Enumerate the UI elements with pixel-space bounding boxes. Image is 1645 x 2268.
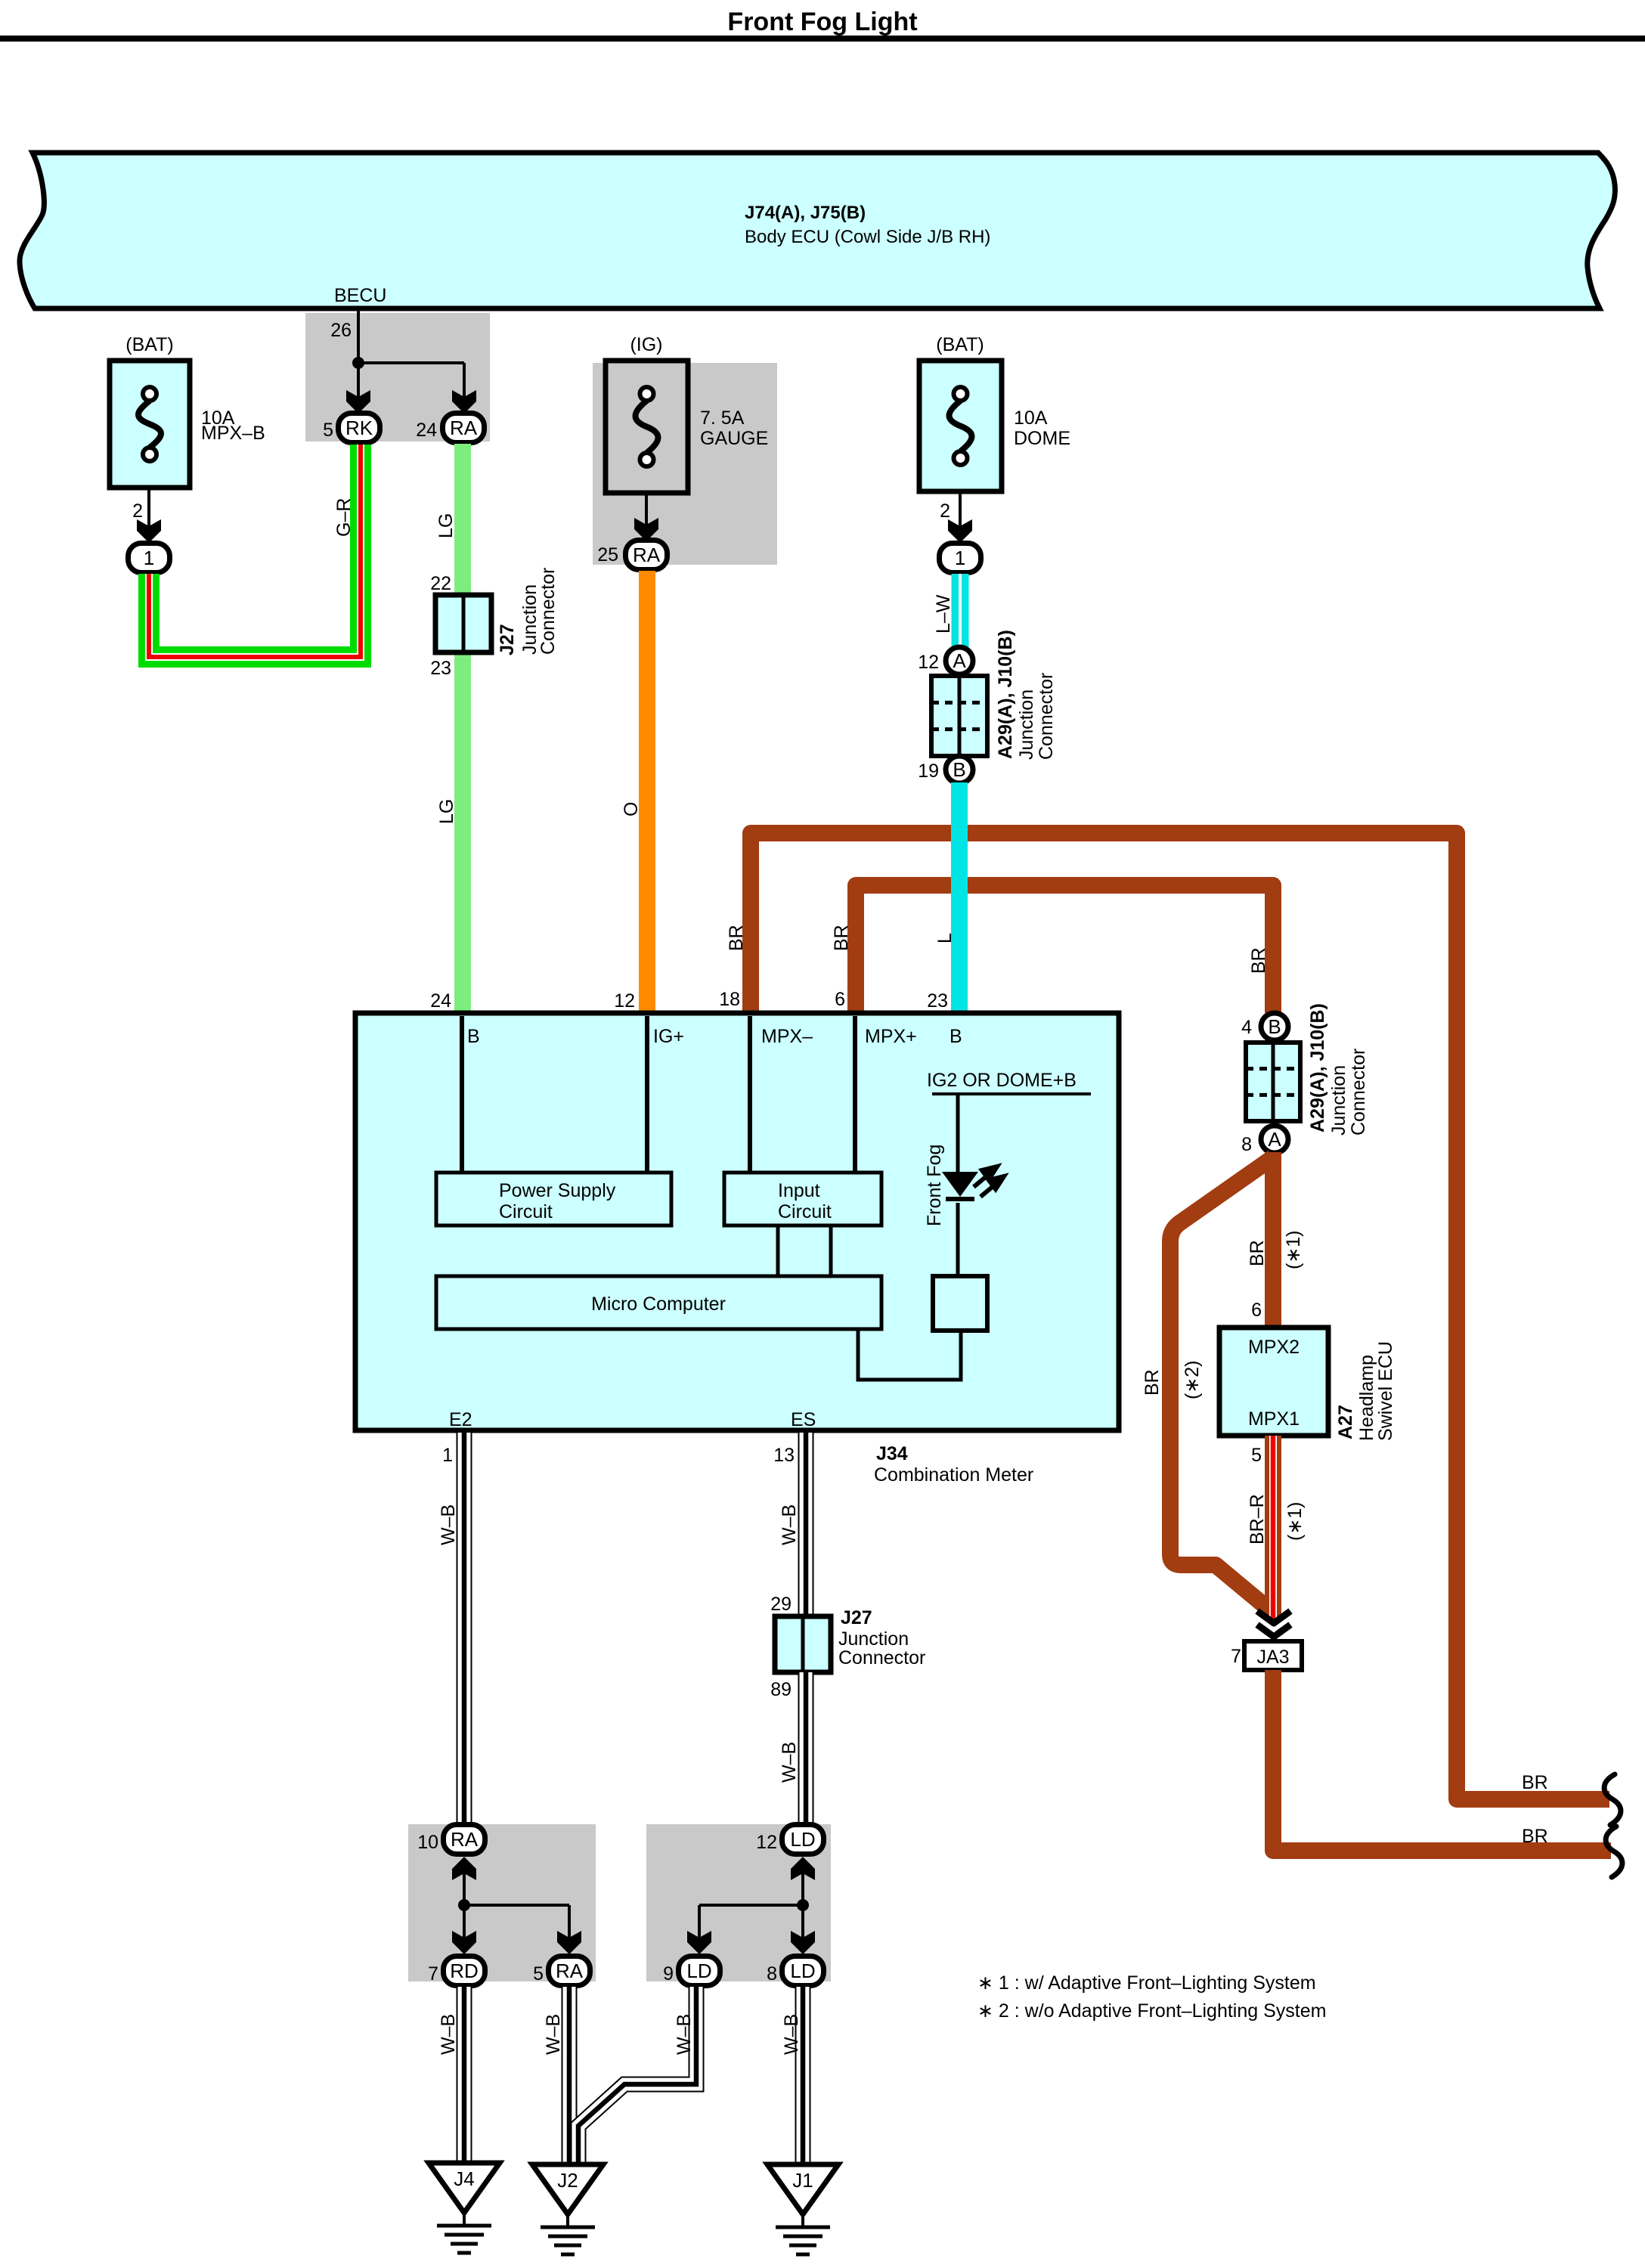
wire W-B RA to ground J2 bbox=[562, 1987, 578, 2164]
arrow into RA pin 24 bbox=[452, 390, 476, 414]
svg-text:DOME: DOME bbox=[1014, 428, 1070, 449]
svg-text:W–B: W–B bbox=[438, 2014, 459, 2055]
svg-text:G–R: G–R bbox=[333, 498, 355, 537]
svg-text:B: B bbox=[1268, 1015, 1281, 1038]
wire BECU pin 26 bbox=[357, 308, 360, 398]
svg-text:LG: LG bbox=[436, 799, 457, 824]
oval RA 5 bbox=[549, 1957, 590, 1986]
junction connector J27 on LG bbox=[435, 595, 491, 652]
svg-text:Connector: Connector bbox=[537, 568, 559, 655]
svg-text:(BAT): (BAT) bbox=[125, 334, 173, 355]
svg-text:24: 24 bbox=[416, 420, 437, 441]
svg-text:LD: LD bbox=[790, 1828, 815, 1851]
svg-text:Power Supply: Power Supply bbox=[499, 1180, 616, 1201]
svg-text:18: 18 bbox=[719, 989, 740, 1010]
svg-text:12: 12 bbox=[614, 990, 635, 1012]
svg-text:RA: RA bbox=[451, 1828, 479, 1851]
svg-text:A: A bbox=[953, 649, 966, 672]
arrow into RK bbox=[346, 390, 370, 414]
arrow up into LD bbox=[791, 1857, 815, 1880]
svg-text:19: 19 bbox=[918, 761, 939, 782]
IG2 OR DOME+B underline bbox=[932, 1092, 1091, 1095]
svg-text:Junction: Junction bbox=[1328, 1065, 1349, 1136]
ECU A27 Headlamp Swivel ECU bbox=[1219, 1328, 1328, 1436]
svg-text:Connector: Connector bbox=[1036, 673, 1057, 760]
oval RA bottom bbox=[444, 1825, 485, 1854]
wire branch to RA 5 bbox=[464, 1904, 569, 1907]
svg-text:∗ 1 : w/ Adaptive Front–Lighti: ∗ 1 : w/ Adaptive Front–Lighting System bbox=[977, 1972, 1316, 1994]
svg-text:Connector: Connector bbox=[838, 1647, 925, 1668]
svg-text:E2: E2 bbox=[449, 1409, 472, 1430]
svg-text:Connector: Connector bbox=[1348, 1049, 1369, 1136]
svg-text:GAUGE: GAUGE bbox=[700, 428, 768, 449]
input circuit box bbox=[724, 1173, 881, 1225]
junction circle B right bbox=[1261, 1013, 1288, 1040]
svg-text:BR: BR bbox=[1247, 1240, 1268, 1266]
svg-text:L–W: L–W bbox=[933, 594, 954, 634]
junction circle B bbox=[946, 756, 973, 783]
svg-text:4: 4 bbox=[1241, 1017, 1252, 1038]
wire BR from MPX- pin 18 to right side bbox=[751, 833, 1609, 1799]
svg-text:B: B bbox=[953, 758, 965, 781]
wire micro computer to driver bbox=[858, 1329, 961, 1380]
wire BR from MPX+ pin 6 to junction B right bbox=[856, 885, 1273, 1013]
arrow into LD 8 bbox=[791, 1931, 815, 1954]
gray box GAUGE fuse area bbox=[593, 363, 777, 565]
wire L from junction B to meter pin 23 bbox=[951, 782, 968, 1013]
wire W-B LD9 to ground J2 bbox=[578, 1987, 696, 2163]
svg-text:Swivel ECU: Swivel ECU bbox=[1375, 1341, 1396, 1441]
svg-text:RA: RA bbox=[450, 417, 478, 439]
wires input circuit to micro computer bbox=[776, 1225, 780, 1276]
svg-text:89: 89 bbox=[770, 1679, 792, 1700]
oval connector 1 dome bbox=[940, 544, 981, 573]
svg-text:W–B: W–B bbox=[438, 1504, 459, 1545]
wire BR-R from A27 pin 5 to JA3 bbox=[1265, 1436, 1281, 1621]
curl upper BR bbox=[1604, 1774, 1621, 1825]
svg-text:LG: LG bbox=[435, 513, 457, 538]
arrow into connector 1 bbox=[137, 519, 161, 543]
svg-text:2: 2 bbox=[132, 500, 143, 522]
oval RD bbox=[444, 1957, 485, 1986]
arrow into RA 5 bbox=[557, 1931, 581, 1954]
svg-text:Headlamp: Headlamp bbox=[1356, 1355, 1377, 1441]
arrow into RA 25 bbox=[634, 518, 658, 541]
gray box BECU connector area bbox=[305, 313, 490, 442]
wire G-R from fuse MPX-B to RK bbox=[149, 445, 361, 657]
svg-text:BR–R: BR–R bbox=[1247, 1494, 1268, 1545]
svg-text:12: 12 bbox=[918, 652, 939, 673]
LED front fog indicator bbox=[942, 1172, 978, 1197]
svg-text:22: 22 bbox=[430, 573, 451, 594]
svg-text:13: 13 bbox=[773, 1445, 795, 1466]
ground J4 bbox=[429, 2163, 500, 2213]
svg-text:W–B: W–B bbox=[543, 2014, 564, 2055]
driver box bbox=[933, 1276, 987, 1331]
arrow into RD bbox=[452, 1931, 476, 1954]
svg-text:10A: 10A bbox=[1014, 407, 1048, 429]
svg-text:RD: RD bbox=[450, 1960, 479, 1982]
svg-text:Micro Computer: Micro Computer bbox=[591, 1294, 726, 1315]
junction dot node 26 bbox=[352, 357, 364, 369]
svg-text:6: 6 bbox=[1251, 1300, 1262, 1321]
svg-text:25: 25 bbox=[597, 544, 618, 565]
wire from IG2 node to LED bbox=[956, 1094, 960, 1173]
wire O from RA to meter pin 12 bbox=[639, 571, 655, 1013]
svg-text:BR: BR bbox=[831, 925, 852, 951]
svg-text:IG+: IG+ bbox=[653, 1026, 684, 1047]
svg-text:J34: J34 bbox=[876, 1443, 908, 1464]
junction connector J27 on ES wire bbox=[775, 1616, 831, 1672]
svg-text:A: A bbox=[1268, 1128, 1281, 1151]
svg-text:BECU: BECU bbox=[334, 285, 386, 306]
fuse 10A MPX-B bbox=[110, 361, 190, 488]
svg-text:RK: RK bbox=[345, 417, 373, 439]
oval RA bbox=[443, 414, 485, 443]
connector JA3 bbox=[1244, 1641, 1302, 1670]
wire L overpass bbox=[951, 816, 968, 907]
svg-text:A29(A), J10(B): A29(A), J10(B) bbox=[1307, 1003, 1328, 1132]
svg-text:A29(A), J10(B): A29(A), J10(B) bbox=[995, 630, 1016, 759]
svg-text:1: 1 bbox=[442, 1445, 453, 1466]
wire BR from JA3 to right exit lower bbox=[1273, 1670, 1611, 1851]
Body ECU band J74(A) J75(B) bbox=[20, 153, 1615, 308]
junction connector A29(A) J10(B) left bbox=[931, 676, 987, 756]
svg-text:ES: ES bbox=[791, 1409, 816, 1430]
svg-text:8: 8 bbox=[767, 1963, 777, 1984]
svg-text:JA3: JA3 bbox=[1256, 1647, 1289, 1668]
svg-text:J1: J1 bbox=[792, 2169, 813, 2192]
ground J1 bbox=[767, 2164, 838, 2214]
svg-text:26: 26 bbox=[330, 320, 352, 341]
svg-text:2: 2 bbox=[940, 500, 950, 522]
wire L-W from dome fuse to junction A bbox=[952, 574, 969, 648]
junction circle A right bbox=[1261, 1126, 1288, 1153]
junction circle A bbox=[946, 647, 973, 674]
svg-text:7: 7 bbox=[428, 1963, 438, 1984]
svg-text:L: L bbox=[934, 933, 956, 943]
svg-text:MPX2: MPX2 bbox=[1248, 1337, 1300, 1358]
oval connector 1 left bbox=[129, 544, 170, 573]
wire W-B LD8 to ground J1 bbox=[795, 1987, 811, 2164]
oval RK bbox=[339, 414, 380, 443]
fuse 7.5A GAUGE bbox=[606, 361, 688, 493]
svg-text:W–B: W–B bbox=[781, 2014, 802, 2055]
oval LD top bbox=[782, 1825, 824, 1854]
svg-text:9: 9 bbox=[663, 1963, 674, 1984]
curl lower BR bbox=[1606, 1826, 1622, 1877]
fuse DOME pin 2 wire bbox=[959, 491, 962, 527]
svg-text:BR: BR bbox=[1142, 1369, 1163, 1396]
svg-text:Body ECU (Cowl Side J/B RH): Body ECU (Cowl Side J/B RH) bbox=[745, 227, 990, 247]
svg-text:(∗2): (∗2) bbox=[1182, 1360, 1203, 1399]
meter internal wire B to power supply bbox=[460, 1016, 464, 1173]
gray box earth connectors right bbox=[646, 1824, 831, 1981]
svg-text:RA: RA bbox=[556, 1960, 584, 1982]
svg-text:12: 12 bbox=[756, 1832, 777, 1853]
svg-text:A27: A27 bbox=[1335, 1405, 1356, 1439]
wire W-B from ES to J27 bbox=[798, 1433, 814, 1616]
oval LD 8 bbox=[782, 1957, 824, 1986]
double chevron arrow into JA3 bbox=[1257, 1611, 1290, 1623]
svg-text:6: 6 bbox=[835, 989, 845, 1010]
svg-text:(BAT): (BAT) bbox=[936, 334, 984, 355]
svg-text:29: 29 bbox=[770, 1594, 792, 1615]
junction connector A29(A) J10(B) right bbox=[1246, 1043, 1300, 1121]
svg-text:MPX–: MPX– bbox=[761, 1026, 813, 1047]
wire RA junction down bbox=[463, 1873, 466, 1908]
svg-text:7. 5A: 7. 5A bbox=[700, 407, 745, 429]
svg-text:J74(A), J75(B): J74(A), J75(B) bbox=[745, 203, 866, 223]
wire W-B from E2 to RA bbox=[457, 1433, 472, 1824]
svg-text:LD: LD bbox=[790, 1960, 815, 1982]
oval RA gauge bbox=[626, 541, 668, 570]
svg-text:8: 8 bbox=[1241, 1134, 1252, 1155]
svg-text:5: 5 bbox=[533, 1963, 544, 1984]
svg-text:23: 23 bbox=[927, 990, 948, 1012]
svg-text:RA: RA bbox=[633, 544, 661, 566]
meter internal wire MPX- to input circuit bbox=[748, 1016, 752, 1173]
svg-text:(∗1): (∗1) bbox=[1284, 1501, 1306, 1541]
svg-text:O: O bbox=[621, 802, 642, 816]
svg-text:MPX–B: MPX–B bbox=[201, 423, 265, 444]
fuse 10A DOME bbox=[919, 361, 1002, 491]
svg-text:BR: BR bbox=[1248, 947, 1269, 974]
svg-text:J27: J27 bbox=[497, 624, 518, 655]
svg-text:Front Fog Light: Front Fog Light bbox=[727, 8, 917, 36]
wire BR diagonal branch to *2 run bbox=[1170, 1157, 1273, 1610]
svg-text:∗ 2 : w/o Adaptive Front–Light: ∗ 2 : w/o Adaptive Front–Lighting System bbox=[977, 2000, 1326, 2022]
svg-text:J27: J27 bbox=[841, 1607, 872, 1628]
arrow into connector 1 dome bbox=[948, 519, 972, 543]
svg-text:Junction: Junction bbox=[1016, 689, 1037, 760]
meter internal wire MPX+ to input circuit bbox=[853, 1016, 857, 1173]
svg-text:23: 23 bbox=[430, 658, 451, 679]
svg-text:MPX1: MPX1 bbox=[1248, 1408, 1300, 1430]
wire LED to driver box bbox=[956, 1203, 960, 1276]
junction dot left earth bbox=[458, 1899, 470, 1911]
oval LD 9 bbox=[679, 1957, 720, 1986]
svg-text:MPX+: MPX+ bbox=[865, 1026, 917, 1047]
svg-text:Combination Meter: Combination Meter bbox=[874, 1464, 1033, 1486]
gray box earth connectors left bbox=[408, 1824, 596, 1981]
wire branch to RA bbox=[358, 361, 464, 364]
svg-text:B: B bbox=[467, 1026, 480, 1047]
combination meter J34 box bbox=[355, 1013, 1119, 1430]
svg-text:Junction: Junction bbox=[838, 1628, 909, 1650]
wire LD junction down bbox=[801, 1873, 804, 1908]
svg-text:LD: LD bbox=[686, 1960, 711, 1982]
svg-text:1: 1 bbox=[144, 547, 154, 569]
title rule bbox=[0, 36, 1645, 42]
wire W-B RD to ground J4 bbox=[457, 1987, 472, 2163]
wire LG from RA to combination meter pin 24 bbox=[454, 444, 471, 1013]
LED light arrows bbox=[974, 1167, 1004, 1197]
power supply circuit box bbox=[436, 1173, 671, 1225]
svg-text:BR: BR bbox=[1522, 1826, 1548, 1847]
svg-text:Circuit: Circuit bbox=[778, 1201, 832, 1222]
svg-text:Circuit: Circuit bbox=[499, 1201, 553, 1222]
svg-text:J4: J4 bbox=[454, 2167, 474, 2190]
fuse pin 2 wire bbox=[147, 488, 150, 527]
ground J2 bbox=[532, 2164, 603, 2214]
svg-text:5: 5 bbox=[323, 420, 333, 441]
svg-text:W–B: W–B bbox=[779, 1504, 800, 1545]
svg-text:BR: BR bbox=[726, 925, 747, 951]
micro computer box bbox=[436, 1276, 881, 1329]
junction dot right earth bbox=[797, 1899, 809, 1911]
svg-text:(∗1): (∗1) bbox=[1283, 1230, 1304, 1269]
svg-text:Input: Input bbox=[778, 1180, 820, 1201]
arrow up into RA bbox=[452, 1857, 476, 1880]
svg-text:IG2 OR DOME+B: IG2 OR DOME+B bbox=[927, 1070, 1077, 1091]
svg-text:J2: J2 bbox=[557, 2169, 578, 2192]
svg-text:24: 24 bbox=[430, 990, 451, 1012]
svg-text:W–B: W–B bbox=[779, 1742, 800, 1783]
wire W-B from J27 to LD bbox=[798, 1672, 814, 1824]
svg-text:7: 7 bbox=[1231, 1646, 1241, 1667]
fuse GAUGE pin wire bbox=[645, 493, 648, 525]
wire BR from junction A to A27 MPX2 bbox=[1265, 1152, 1281, 1328]
svg-text:(IG): (IG) bbox=[630, 334, 662, 355]
svg-text:Front Fog: Front Fog bbox=[924, 1145, 945, 1226]
svg-text:W–B: W–B bbox=[674, 2014, 695, 2055]
svg-text:B: B bbox=[950, 1026, 962, 1047]
svg-text:BR: BR bbox=[1522, 1772, 1548, 1793]
svg-text:10: 10 bbox=[417, 1832, 438, 1853]
wire branch to LD 9 bbox=[699, 1904, 803, 1907]
svg-text:1: 1 bbox=[955, 547, 965, 569]
meter internal wire IG+ to power supply bbox=[645, 1016, 649, 1173]
arrow into LD 9 bbox=[687, 1931, 711, 1954]
svg-text:5: 5 bbox=[1251, 1445, 1262, 1466]
